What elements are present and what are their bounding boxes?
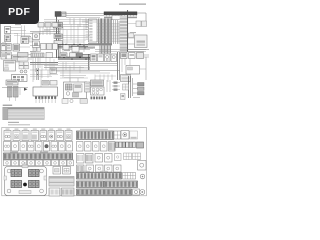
connector xyxy=(121,94,126,100)
ring terminal 2 xyxy=(140,174,145,179)
harness connector xyxy=(54,23,63,29)
wire xyxy=(122,13,146,52)
harness bundle right xyxy=(129,76,133,98)
connector xyxy=(137,53,144,59)
wire xyxy=(30,45,95,50)
wire xyxy=(144,55,149,80)
harness connector 3 xyxy=(54,41,63,45)
bus bar 2 xyxy=(104,17,137,18)
small socket box xyxy=(115,154,122,161)
color code table xyxy=(3,107,45,119)
connector row 1 left xyxy=(4,129,72,141)
socket grid xyxy=(91,87,105,95)
relay row xyxy=(41,44,58,50)
wire xyxy=(70,18,86,30)
wire xyxy=(40,27,54,35)
grid block pair xyxy=(124,153,141,160)
wire xyxy=(36,99,55,103)
top connector box xyxy=(112,16,122,20)
connector row 2 left xyxy=(4,142,73,152)
page background xyxy=(0,0,149,198)
ignition coil L xyxy=(8,87,13,98)
instrument cluster xyxy=(12,75,28,82)
wire xyxy=(34,57,54,80)
main fuse bar xyxy=(104,12,137,17)
ignition switch S1 xyxy=(55,12,66,17)
terminal cell strip xyxy=(116,142,136,148)
note text xyxy=(8,122,30,126)
wire xyxy=(128,38,149,52)
component xyxy=(121,75,131,82)
ecu box xyxy=(33,87,58,96)
fuse block xyxy=(91,54,97,62)
wire xyxy=(2,88,28,96)
sensor boxes xyxy=(42,81,57,86)
PDF badge xyxy=(0,0,39,24)
aux box xyxy=(137,142,144,148)
connector xyxy=(60,53,83,57)
section frame xyxy=(2,127,147,195)
starter relay inner xyxy=(66,84,83,97)
pin row xyxy=(91,97,106,100)
main harness bundle xyxy=(58,54,90,70)
bundle tail xyxy=(100,46,111,54)
wire xyxy=(28,58,58,65)
relay box E xyxy=(13,44,20,51)
wire xyxy=(82,20,98,22)
rectifier unit xyxy=(126,66,140,75)
wire chart table xyxy=(49,177,74,187)
wire xyxy=(33,57,40,82)
bulb lamps xyxy=(20,70,27,73)
wire harness bundle xyxy=(97,19,120,46)
wire xyxy=(16,55,35,63)
wire xyxy=(122,59,146,73)
connector xyxy=(70,53,77,57)
pin strip A xyxy=(77,129,114,140)
wire xyxy=(11,26,26,45)
connector row 4 left xyxy=(4,160,74,166)
diode block D2 xyxy=(33,41,40,48)
harness connector 2 xyxy=(54,34,63,39)
junction bar xyxy=(88,43,112,45)
wire xyxy=(63,20,84,52)
wire xyxy=(44,14,104,22)
vertical harness bundle xyxy=(57,17,61,59)
wire xyxy=(75,24,136,49)
speedometer unit xyxy=(4,61,16,72)
connector row 3 right xyxy=(77,154,94,164)
cdi connector xyxy=(6,80,18,85)
connector row 2 right xyxy=(77,142,116,152)
connector row 4 right xyxy=(77,165,122,172)
connector pair C xyxy=(1,44,11,51)
relay socket xyxy=(105,54,111,62)
wire xyxy=(30,66,88,71)
ignition coil row xyxy=(38,23,58,28)
edge socket box xyxy=(138,161,147,171)
diode stack xyxy=(138,83,145,95)
wire xyxy=(90,50,146,66)
connector pair xyxy=(63,45,79,52)
fuse block 2 xyxy=(98,54,104,62)
connector row xyxy=(33,48,41,52)
connector boxes xyxy=(49,188,74,196)
switch unit B xyxy=(5,35,11,42)
ecu pins xyxy=(35,96,56,99)
end socket xyxy=(133,189,140,195)
meter unit xyxy=(21,37,33,44)
wire xyxy=(50,62,120,83)
terminal rings xyxy=(140,190,145,195)
faint connector xyxy=(130,131,138,139)
pin strip D xyxy=(77,181,138,188)
connector xyxy=(46,53,57,74)
page edge line xyxy=(0,24,2,58)
diode block D1 xyxy=(33,33,40,40)
wire xyxy=(10,97,16,101)
harness drop xyxy=(118,52,120,80)
pin strip C xyxy=(77,171,136,179)
relay socket 2 xyxy=(111,54,117,62)
connector xyxy=(18,53,29,57)
wire xyxy=(107,80,120,92)
connector xyxy=(18,58,29,62)
connector pair D xyxy=(1,52,11,59)
connector with socket xyxy=(121,131,129,140)
handlebar switch left xyxy=(5,27,11,34)
regulator block xyxy=(91,80,104,86)
junction dots xyxy=(62,44,84,47)
wire xyxy=(20,47,31,58)
regulator unit xyxy=(121,53,128,59)
starter relay box xyxy=(64,82,87,99)
indicator block xyxy=(19,62,29,69)
pin strip E xyxy=(77,189,132,195)
title text bar xyxy=(119,3,146,5)
relay unit R1 xyxy=(129,33,148,48)
wire xyxy=(133,84,140,98)
bus wires xyxy=(30,25,88,34)
grid connector xyxy=(114,131,121,139)
small box pair xyxy=(53,167,71,175)
junction dots xyxy=(65,44,85,49)
legend header text xyxy=(3,105,13,106)
wire xyxy=(70,78,78,82)
junction box F xyxy=(12,55,20,61)
arrow marker xyxy=(24,88,28,91)
side unit xyxy=(85,82,91,92)
aux connector pair xyxy=(136,21,147,27)
wire xyxy=(30,62,86,78)
pin strip B xyxy=(4,152,73,160)
vertical pin connector xyxy=(86,19,98,42)
label text marks xyxy=(2,24,136,52)
small connector pair xyxy=(95,154,112,163)
wire xyxy=(14,34,90,43)
pin header xyxy=(31,53,44,57)
wire xyxy=(41,68,90,101)
aux small boxes xyxy=(62,99,88,104)
tick boxes xyxy=(114,82,118,91)
small grid xyxy=(123,84,129,90)
harness column xyxy=(120,10,128,52)
connector xyxy=(129,53,136,59)
ignition coil R xyxy=(14,87,19,98)
twisted pair xyxy=(37,68,39,80)
headlight housing assembly xyxy=(4,162,47,196)
